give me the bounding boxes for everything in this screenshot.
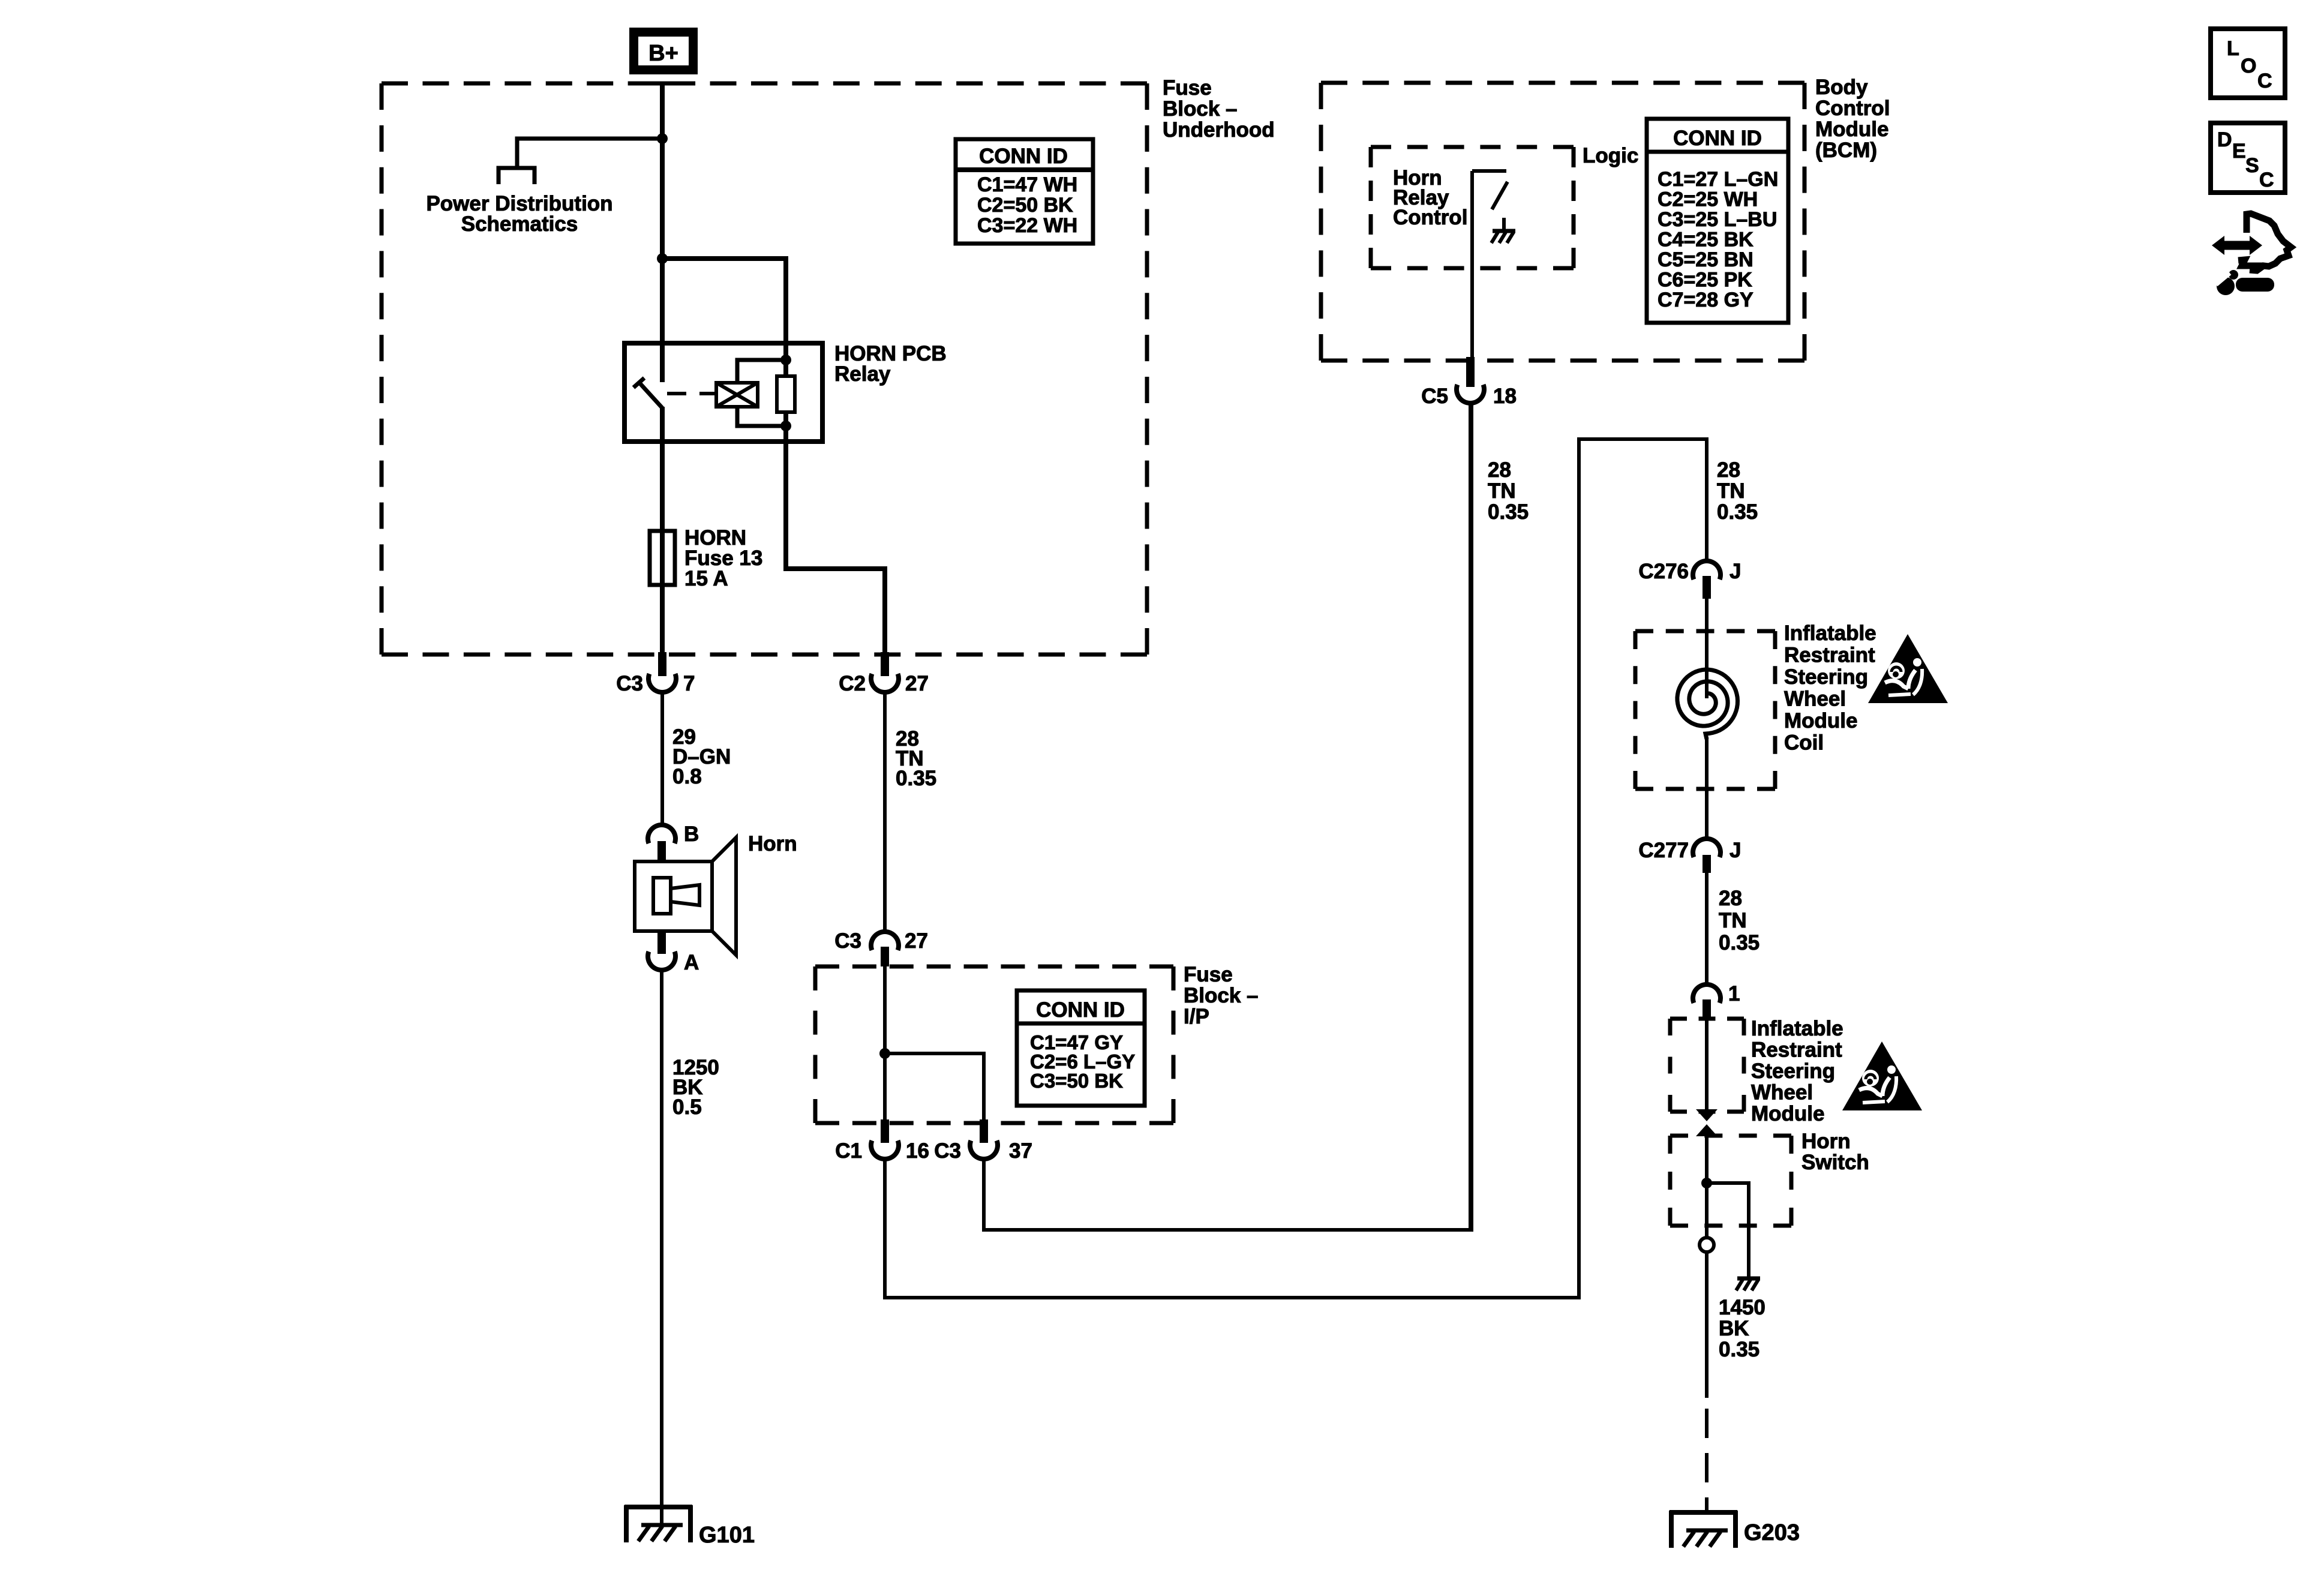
connector C276 stub: [1703, 576, 1711, 599]
svg-text:C4=25 BK: C4=25 BK: [1658, 229, 1753, 251]
svg-text:E: E: [2232, 140, 2246, 163]
svg-text:7: 7: [683, 672, 695, 695]
steering wheel module dashed box: [1670, 1017, 1744, 1021]
wire relay to fuse: [660, 442, 665, 531]
svg-text:BK: BK: [1719, 1317, 1749, 1340]
connector C277 dome: [1693, 839, 1721, 857]
svg-text:27: 27: [905, 672, 929, 695]
steering wheel coil dashed box: [1635, 629, 1775, 634]
LOC icon box: [2211, 29, 2285, 98]
svg-text:(BCM): (BCM): [1815, 139, 1877, 162]
wire C277 to SWM connector 1: [1705, 873, 1709, 984]
connector C2 pin 27 cup: [871, 674, 899, 692]
wire horn to ground G101: [660, 969, 663, 1527]
schematic navigation icon (arrows, outline, wrench): [2212, 214, 2291, 295]
wire branch to C3-37: [885, 1053, 984, 1123]
svg-text:C: C: [2257, 70, 2272, 92]
relay coil symbol box with X: [716, 383, 758, 407]
svg-text:TN: TN: [1488, 479, 1516, 503]
connector C5 pin 18 stub: [1466, 357, 1475, 387]
svg-text:15 A: 15 A: [684, 567, 728, 590]
connector 1 stub: [1703, 999, 1711, 1019]
wire branch to relay coil side: [662, 259, 786, 344]
svg-text:0.35: 0.35: [1719, 1338, 1759, 1361]
connector C1 pin 16 cup: [871, 1140, 899, 1159]
svg-text:L: L: [2227, 37, 2239, 60]
connector C5 pin 18 cup: [1457, 385, 1484, 403]
connector C3 pin 7 stub: [658, 652, 666, 676]
svg-text:C1=47 WH: C1=47 WH: [977, 173, 1077, 196]
svg-text:C276: C276: [1638, 560, 1689, 583]
Logic dashed box: [1371, 145, 1574, 149]
svg-text:Wheel: Wheel: [1751, 1081, 1813, 1104]
svg-text:Horn: Horn: [1801, 1130, 1851, 1153]
relay switch blade: [638, 382, 662, 408]
wire C3-37 to BCM C5-18: [984, 401, 1472, 1230]
svg-text:Module: Module: [1751, 1102, 1824, 1125]
svg-text:0.5: 0.5: [672, 1095, 702, 1119]
svg-text:0.35: 0.35: [1488, 500, 1529, 524]
connector C2 pin 27 stub: [881, 652, 889, 676]
horn switch contact symbol (double triangle): [1696, 1109, 1718, 1121]
CONN ID table divider (underhood): [956, 167, 1093, 172]
node horn switch junction: [1701, 1178, 1712, 1188]
BCM driver switch blade: [1492, 182, 1508, 209]
svg-text:C7=28 GY: C7=28 GY: [1658, 289, 1753, 311]
horn connector B dome: [648, 825, 675, 843]
svg-text:C5: C5: [1421, 385, 1448, 408]
svg-text:Coil: Coil: [1784, 731, 1824, 755]
connector C276 dome: [1693, 561, 1721, 580]
airbag warning triangle (module): [1842, 1041, 1922, 1110]
wire through steering wheel module: [1705, 1019, 1709, 1110]
svg-text:C277: C277: [1638, 839, 1689, 862]
svg-text:28: 28: [1488, 458, 1511, 482]
svg-text:27: 27: [905, 929, 928, 953]
CONN ID table divider (BCM): [1647, 150, 1788, 154]
svg-text:J: J: [1730, 839, 1741, 862]
horn inner rectangle: [653, 878, 671, 914]
horn switch contact circle: [1700, 1238, 1714, 1252]
svg-text:Restraint: Restraint: [1784, 644, 1875, 667]
svg-text:I/P: I/P: [1184, 1005, 1209, 1028]
svg-text:Control: Control: [1393, 206, 1467, 229]
CONN ID table divider (I/P): [1017, 1022, 1145, 1026]
svg-text:28: 28: [1717, 458, 1740, 482]
svg-text:C3=50 BK: C3=50 BK: [1030, 1070, 1123, 1092]
Body Control Module dashed outline box: [1321, 81, 1804, 85]
horn connector A stub: [657, 931, 666, 954]
svg-text:C2=50 BK: C2=50 BK: [977, 194, 1073, 217]
svg-text:C1: C1: [835, 1139, 862, 1163]
connector C3 pin 27 stub: [881, 947, 889, 966]
horn speaker cone: [712, 837, 736, 955]
DESC icon box: [2211, 123, 2285, 193]
horn component box: [635, 861, 712, 931]
svg-text:16: 16: [906, 1139, 929, 1163]
svg-text:Block –: Block –: [1163, 97, 1238, 121]
svg-text:Inflatable: Inflatable: [1751, 1017, 1843, 1040]
svg-text:C3: C3: [934, 1139, 961, 1163]
fuse F13 HORN Fuse 13 15A: [650, 531, 675, 585]
connector C3 pin 37 cup: [970, 1140, 998, 1159]
clockspring coil spiral: [1677, 670, 1738, 739]
relay switch contact wire in: [660, 343, 665, 382]
relay internal resistor wire: [783, 343, 788, 442]
svg-text:Relay: Relay: [834, 362, 891, 386]
svg-text:Fuse: Fuse: [1163, 76, 1212, 100]
node relay coil/resistor bottom: [780, 421, 791, 431]
svg-text:Underhood: Underhood: [1163, 118, 1275, 142]
svg-text:CONN ID: CONN ID: [979, 145, 1068, 168]
resistor R1 inside relay: [777, 376, 795, 412]
svg-text:Fuse: Fuse: [1184, 963, 1233, 986]
Fuse Block - Underhood dashed outline box: [382, 82, 1147, 86]
Horn Switch dashed box: [1670, 1134, 1791, 1138]
svg-text:37: 37: [1009, 1139, 1032, 1163]
horn connector A cup: [648, 951, 675, 970]
wire horn switch to G203: [1705, 1252, 1709, 1398]
svg-text:D: D: [2217, 128, 2232, 151]
horn connector B stub: [657, 841, 666, 861]
svg-text:C3: C3: [616, 672, 643, 695]
svg-text:CONN ID: CONN ID: [1673, 127, 1762, 150]
svg-text:1450: 1450: [1719, 1296, 1765, 1319]
horn trumpet: [671, 885, 699, 905]
dash tee at B+ entry: [648, 82, 677, 86]
node junction to power distribution: [657, 133, 668, 144]
svg-text:C2: C2: [839, 672, 866, 695]
wire through horn switch: [1705, 1136, 1709, 1238]
connector C3 pin 27 dome: [871, 932, 899, 950]
svg-text:1: 1: [1728, 982, 1740, 1005]
airbag warning triangle (coil): [1868, 634, 1948, 703]
svg-text:Schematics: Schematics: [461, 212, 578, 236]
svg-text:S: S: [2245, 154, 2259, 177]
connector C277 stub: [1703, 855, 1711, 873]
wire B+ to relay: [660, 83, 665, 344]
wire fuse to connector C3-7: [660, 585, 665, 656]
connector C3 pin 7 cup: [648, 674, 676, 692]
svg-text:Steering: Steering: [1784, 665, 1868, 689]
svg-text:Inflatable: Inflatable: [1784, 622, 1876, 645]
node I/P internal junction: [879, 1048, 890, 1059]
svg-text:0.35: 0.35: [1717, 500, 1758, 524]
relay switch contact wire out: [660, 407, 665, 442]
wire C2-27 to C3-27: [883, 692, 887, 933]
svg-text:A: A: [684, 951, 699, 974]
svg-text:C3: C3: [834, 929, 861, 953]
svg-text:O: O: [2241, 55, 2256, 77]
BCM driver switch top lead: [1472, 169, 1506, 173]
svg-text:C2=25 WH: C2=25 WH: [1658, 188, 1758, 211]
connector C3 pin 37 stub: [980, 1119, 988, 1143]
svg-text:B: B: [684, 822, 699, 846]
svg-text:0.8: 0.8: [672, 765, 702, 788]
node junction to relay coil branch: [657, 253, 668, 264]
svg-text:Module: Module: [1815, 118, 1888, 141]
svg-text:Horn: Horn: [748, 832, 797, 855]
svg-text:CONN ID: CONN ID: [1036, 998, 1125, 1022]
wire through fuse: [660, 531, 665, 585]
BCM driver internal ground: [1502, 218, 1506, 231]
svg-text:TN: TN: [1717, 479, 1745, 503]
svg-text:0.35: 0.35: [896, 767, 936, 790]
off-page connector staple (power distribution): [499, 168, 535, 184]
svg-text:28: 28: [1719, 887, 1742, 910]
svg-text:B+: B+: [648, 41, 678, 66]
connector C1 pin 16 stub: [881, 1119, 889, 1143]
relay coil top lead: [737, 360, 783, 383]
svg-text:Restraint: Restraint: [1751, 1038, 1842, 1062]
svg-text:TN: TN: [1719, 909, 1747, 932]
wire branch to power distribution: [517, 139, 662, 168]
svg-text:0.35: 0.35: [1719, 931, 1759, 954]
connector 1 dome (steering wheel module): [1693, 984, 1721, 1003]
svg-text:C3=25 L–BU: C3=25 L–BU: [1658, 208, 1777, 231]
ground G101 symbol: [624, 1505, 692, 1509]
wire C1-16 to steering wheel circuit: [885, 439, 1707, 1298]
relay internal dashed link: [667, 392, 716, 395]
svg-text:Steering: Steering: [1751, 1059, 1835, 1083]
horn switch internal ground: [1747, 1265, 1750, 1278]
wire relay output to C2-27: [786, 442, 885, 656]
power feed B+ box: [629, 28, 698, 74]
Fuse Block - I/P dashed outline box: [815, 965, 1173, 969]
svg-text:C6=25 PK: C6=25 PK: [1658, 269, 1752, 292]
CONN ID table box (underhood): [956, 139, 1093, 244]
svg-text:Control: Control: [1815, 97, 1890, 120]
horn switch ground branch: [1707, 1183, 1749, 1274]
node relay coil/resistor top: [780, 355, 791, 365]
svg-text:18: 18: [1493, 385, 1517, 408]
wire into clockspring coil: [1705, 599, 1709, 698]
svg-text:G101: G101: [699, 1523, 755, 1548]
svg-text:Block –: Block –: [1184, 984, 1259, 1007]
svg-text:Body: Body: [1815, 76, 1868, 99]
wire C5-18 down: [1469, 403, 1472, 1230]
wire C3-7 to horn connector B: [660, 692, 664, 827]
svg-text:C5=25 BN: C5=25 BN: [1658, 248, 1753, 271]
dashed wire to G203: [1705, 1409, 1709, 1512]
relay coil bottom lead: [737, 407, 783, 426]
svg-text:Switch: Switch: [1801, 1151, 1869, 1174]
wire inside fuse block I/P: [883, 966, 887, 1123]
CONN ID table box (BCM): [1647, 119, 1788, 323]
ground G203 symbol: [1670, 1510, 1737, 1515]
svg-text:J: J: [1730, 560, 1741, 583]
svg-text:C: C: [2259, 169, 2274, 191]
svg-text:Wheel: Wheel: [1784, 688, 1846, 711]
svg-text:Module: Module: [1784, 709, 1857, 733]
svg-text:G203: G203: [1744, 1520, 1800, 1545]
svg-text:C3=22 WH: C3=22 WH: [977, 214, 1077, 237]
wire out of clockspring coil: [1705, 738, 1709, 840]
BCM horn relay control driver wire: [1470, 171, 1474, 361]
CONN ID table box (I/P): [1017, 990, 1145, 1106]
relay K1 HORN PCB Relay box: [624, 343, 822, 442]
svg-text:Logic: Logic: [1583, 144, 1638, 167]
svg-text:C1=27 L–GN: C1=27 L–GN: [1658, 168, 1778, 191]
